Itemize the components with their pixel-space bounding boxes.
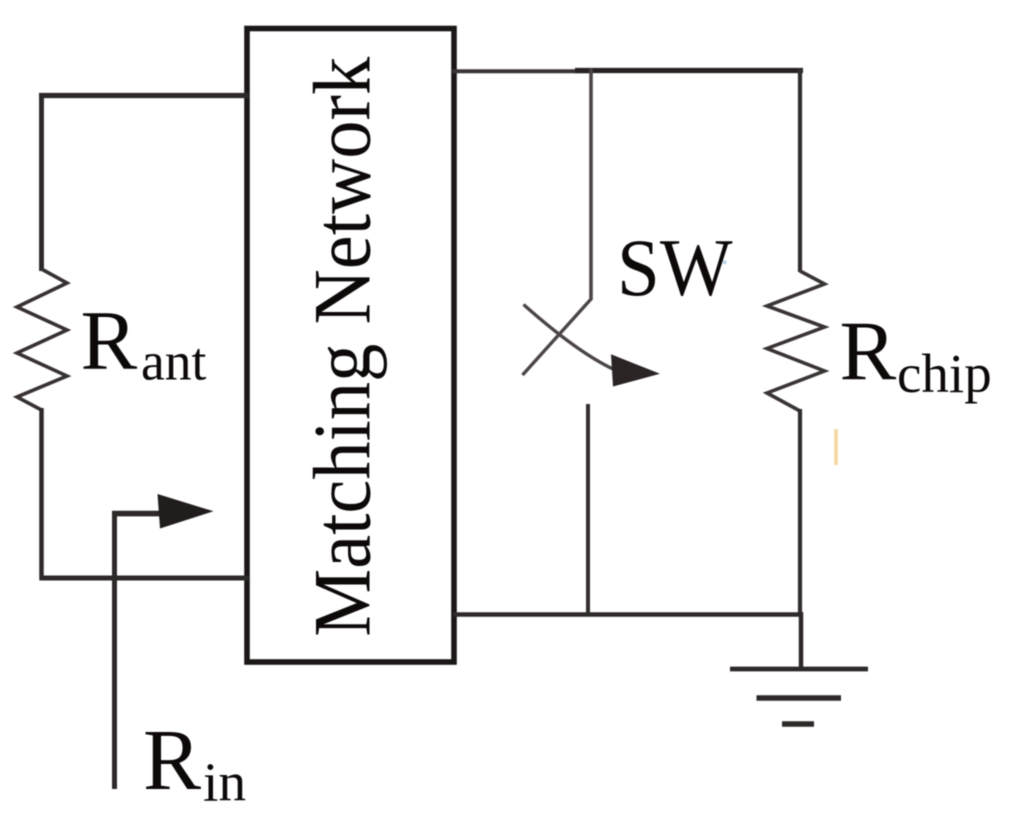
arrowhead SW: [611, 354, 660, 386]
ground bar 2: [757, 695, 842, 701]
ground bar 3: [782, 721, 814, 727]
artifact: faint yellow mark: [834, 429, 838, 465]
svg-text:ant: ant: [141, 332, 206, 392]
wire: Rchip bottom vertical: [798, 409, 802, 617]
switch SW blade: [523, 299, 592, 376]
svg-text:Matching Network: Matching Network: [297, 57, 388, 637]
wire: left vertical lower: [39, 408, 44, 580]
wire: bottom right bus: [453, 612, 802, 617]
wire: Rin probe stem: [112, 512, 117, 790]
artifact: faint blue speck: [723, 261, 727, 265]
resistor Rchip: [767, 271, 825, 411]
switch SW bottom terminal: [586, 404, 590, 617]
wire: antenna top: [39, 93, 249, 98]
svg-text:R: R: [840, 305, 897, 399]
resistor Rant: [17, 269, 67, 410]
svg-text:R: R: [143, 711, 201, 808]
ground bar 1: [730, 667, 868, 672]
svg-text:SW: SW: [617, 222, 733, 313]
wire: antenna bottom: [40, 576, 250, 581]
wire: left vertical upper: [39, 94, 44, 272]
svg-text:in: in: [203, 753, 246, 814]
arrowhead Rin: [158, 494, 214, 529]
ground stub: [799, 612, 804, 669]
box U1: matching network: [247, 29, 454, 663]
wire: top right bus: [452, 69, 592, 73]
switch SW actuator arc: [524, 305, 614, 370]
switch SW top terminal: [589, 69, 593, 300]
svg-text:R: R: [81, 294, 138, 388]
svg-text:chip: chip: [897, 343, 992, 404]
wire: Rchip top vertical: [798, 69, 802, 272]
